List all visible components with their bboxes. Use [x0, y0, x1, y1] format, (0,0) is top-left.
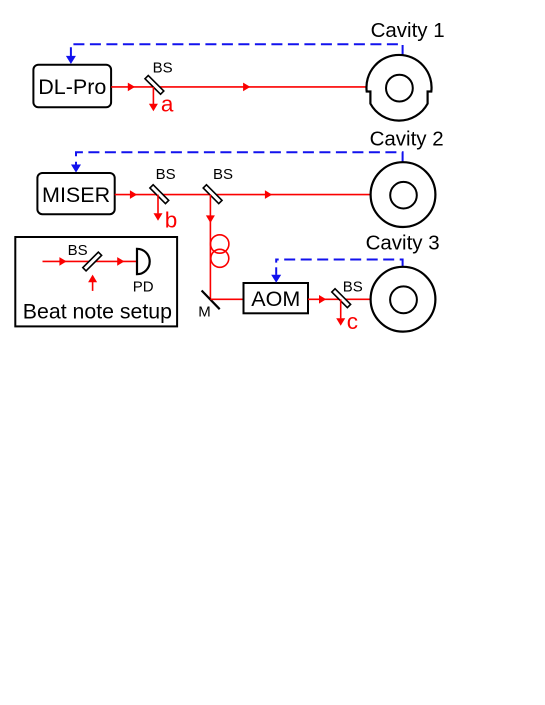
svg-text:M: M — [198, 303, 211, 320]
svg-text:c: c — [347, 309, 358, 334]
photodiode PD — [137, 249, 150, 274]
svg-text:AOM: AOM — [251, 287, 300, 311]
svg-text:BS: BS — [68, 242, 88, 259]
svg-text:DL-Pro: DL-Pro — [38, 75, 106, 99]
beat note setup frame — [15, 237, 177, 326]
svg-text:BS: BS — [213, 166, 233, 183]
arrowhead beam 2a — [130, 190, 137, 199]
arrowhead tap b — [154, 213, 163, 221]
cavity 1 body (notched) — [366, 55, 431, 121]
wire: red beam MISER to Cavity 2 — [115, 194, 371, 196]
wire: red tap c — [340, 299, 342, 318]
cavity 2 bore — [390, 182, 417, 209]
AOM box — [244, 283, 309, 313]
wire: blue dashed feedback Cavity3 to AOM — [276, 260, 402, 268]
arrowhead beat beam a — [59, 257, 66, 266]
svg-text:a: a — [161, 92, 174, 117]
beam splitter BS2 — [203, 185, 222, 204]
wire: blue dash segment above AOM — [275, 267, 277, 275]
svg-text:BS: BS — [343, 278, 363, 295]
svg-text:PD: PD — [133, 278, 154, 295]
beam splitter BS (beat note) — [83, 252, 102, 271]
wire: red beam up into beat note BS — [92, 282, 94, 291]
cavity 3 bore — [390, 286, 417, 313]
wire: red beam AOM to Cavity 3 — [308, 298, 371, 300]
svg-text:Cavity 2: Cavity 2 — [370, 127, 444, 150]
arrowhead up — [88, 275, 97, 283]
arrowhead blue into DL-Pro — [66, 56, 76, 64]
arrowhead down beam — [206, 215, 215, 223]
svg-text:Cavity 1: Cavity 1 — [371, 19, 445, 42]
wire: red beam into beat note BS — [43, 260, 138, 262]
fiber loop lower — [211, 249, 229, 267]
svg-text:BS: BS — [156, 166, 176, 183]
arrowhead blue into MISER — [71, 165, 81, 173]
arrowhead blue into AOM — [271, 275, 281, 283]
wire: red beam BS2 down to mirror M — [209, 195, 211, 300]
wire: red beam M to AOM — [210, 298, 243, 300]
beam splitter BS (c tap) — [332, 289, 351, 308]
beam splitter BS1 — [145, 75, 164, 94]
arrowhead beat beam b — [117, 257, 124, 266]
svg-text:b: b — [165, 208, 178, 233]
arrowhead beam 2b — [265, 190, 272, 199]
svg-text:BS: BS — [153, 60, 173, 77]
wire: blue dashed feedback Cavity1 to DL-Pro — [71, 44, 403, 56]
svg-text:Beat note setup: Beat note setup — [23, 299, 172, 323]
wire: red beam DL-Pro to Cavity 1 — [111, 86, 366, 88]
cavity 3 body — [371, 267, 436, 332]
beam splitter BS (b tap) — [150, 185, 169, 204]
wire: red tap b — [157, 195, 159, 214]
arrowhead tap c — [336, 318, 345, 326]
mirror M — [202, 291, 220, 310]
laser box MISER — [37, 173, 114, 214]
wire: red tap a — [152, 87, 154, 104]
laser box DL-Pro — [33, 65, 111, 108]
wire: blue dashed feedback Cavity2 to MISER — [76, 152, 403, 164]
arrowhead beam 1b — [243, 83, 250, 92]
arrowhead tap a — [149, 104, 158, 112]
svg-text:MISER: MISER — [42, 183, 110, 207]
fiber loop upper — [211, 235, 229, 253]
cavity 2 body — [371, 162, 436, 227]
cavity 1 bore — [386, 75, 413, 102]
svg-text:Cavity 3: Cavity 3 — [366, 231, 440, 254]
arrowhead beam 1a — [128, 83, 135, 92]
arrowhead beam 3 — [319, 295, 326, 304]
